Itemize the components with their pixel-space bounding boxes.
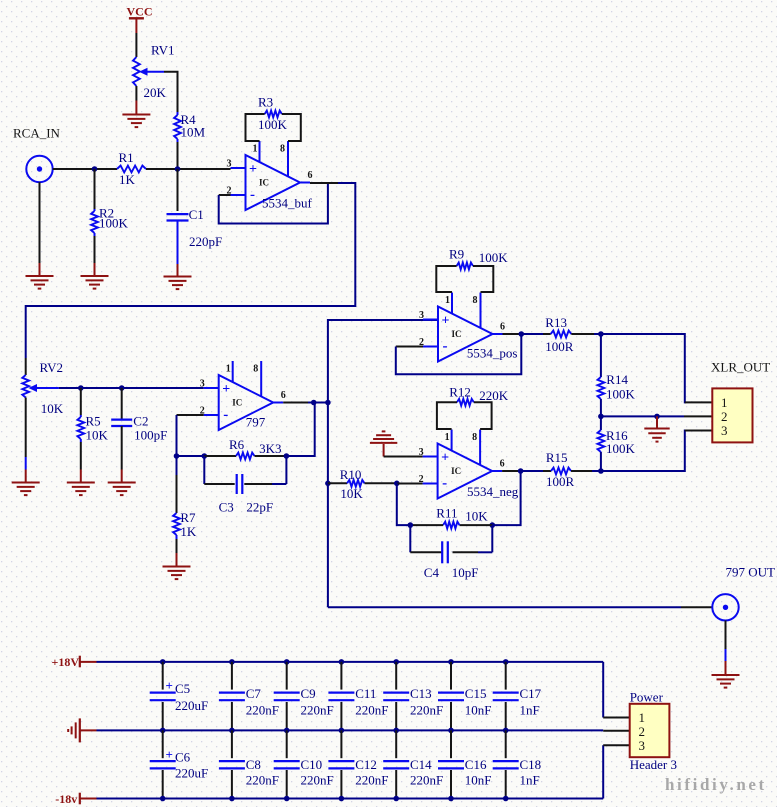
resistor R3 bbox=[265, 111, 282, 118]
node junction bbox=[284, 453, 290, 459]
op-amp U1 5534_buf bbox=[246, 155, 301, 210]
svg-text:100pF: 100pF bbox=[134, 428, 167, 443]
capacitor C3 bbox=[203, 456, 205, 484]
svg-text:1: 1 bbox=[445, 295, 450, 306]
svg-text:8: 8 bbox=[280, 144, 285, 155]
ground bbox=[39, 263, 41, 276]
svg-text:220nF: 220nF bbox=[355, 703, 388, 718]
svg-text:797 OUT: 797 OUT bbox=[726, 565, 776, 580]
node junction bbox=[175, 166, 181, 172]
svg-text:1: 1 bbox=[226, 364, 231, 375]
ground bbox=[80, 470, 82, 483]
node junction bbox=[325, 481, 331, 487]
svg-text:-: - bbox=[223, 407, 228, 423]
svg-text:1: 1 bbox=[253, 144, 258, 155]
svg-text:IC: IC bbox=[452, 329, 462, 339]
node junction bbox=[490, 522, 496, 528]
svg-text:R12: R12 bbox=[449, 385, 471, 400]
wire bbox=[164, 72, 178, 112]
wire bbox=[282, 114, 301, 141]
wire bbox=[601, 334, 686, 402]
capacitor C7 bbox=[229, 659, 235, 665]
wire bbox=[25, 398, 27, 458]
svg-text:C10: C10 bbox=[301, 757, 323, 772]
svg-text:5534_buf: 5534_buf bbox=[262, 196, 313, 211]
svg-text:C16: C16 bbox=[465, 757, 487, 772]
capacitor C9 bbox=[284, 659, 290, 665]
svg-text:5534_pos: 5534_pos bbox=[467, 346, 518, 361]
svg-text:-: - bbox=[442, 476, 447, 492]
svg-text:R14: R14 bbox=[606, 372, 628, 387]
svg-text:10M: 10M bbox=[181, 125, 206, 140]
svg-text:220nF: 220nF bbox=[246, 773, 279, 788]
ground bbox=[121, 470, 123, 483]
op-amp U3 5534_pos bbox=[438, 307, 493, 362]
capacitor C13 bbox=[393, 659, 399, 665]
capacitor C14 bbox=[395, 730, 397, 758]
wire bbox=[177, 221, 179, 265]
svg-text:RV2: RV2 bbox=[40, 360, 64, 375]
resistor R15 bbox=[543, 470, 551, 472]
svg-text:C9: C9 bbox=[301, 686, 316, 701]
svg-text:+: + bbox=[166, 678, 173, 693]
node junction bbox=[119, 385, 125, 391]
wire bbox=[176, 539, 178, 553]
node junction bbox=[598, 414, 604, 420]
svg-text:R15: R15 bbox=[546, 450, 568, 465]
svg-text:220nF: 220nF bbox=[301, 773, 334, 788]
svg-text:3: 3 bbox=[419, 310, 424, 321]
capacitor C6 bbox=[162, 730, 164, 758]
wire bbox=[594, 333, 601, 335]
resistor R14 bbox=[600, 334, 602, 377]
svg-text:6: 6 bbox=[308, 170, 313, 181]
ground bbox=[725, 661, 727, 675]
svg-text:C12: C12 bbox=[355, 757, 377, 772]
ground bbox=[656, 416, 658, 428]
resistor R12 bbox=[457, 399, 474, 406]
svg-text:1K: 1K bbox=[180, 524, 197, 539]
wire bbox=[176, 415, 178, 456]
svg-text:IC: IC bbox=[259, 178, 269, 188]
wire bbox=[26, 183, 356, 358]
svg-text:797: 797 bbox=[246, 415, 266, 430]
svg-text:R7: R7 bbox=[180, 510, 196, 525]
op-amp U2 797 bbox=[219, 375, 274, 430]
ground bbox=[383, 444, 385, 457]
svg-text:Header 3: Header 3 bbox=[630, 757, 677, 772]
resistor R10 bbox=[328, 482, 347, 484]
resistor R11 bbox=[460, 524, 493, 526]
svg-text:5534_neg: 5534_neg bbox=[467, 484, 519, 499]
ground bbox=[176, 553, 178, 567]
node junction bbox=[174, 453, 180, 459]
svg-text:10K: 10K bbox=[41, 401, 64, 416]
svg-text:6: 6 bbox=[500, 322, 505, 333]
wire bbox=[502, 470, 520, 472]
svg-text:100R: 100R bbox=[545, 339, 574, 354]
wire bbox=[219, 183, 328, 224]
svg-text:220nF: 220nF bbox=[246, 703, 279, 718]
wire bbox=[685, 401, 713, 403]
svg-text:R5: R5 bbox=[86, 414, 101, 429]
svg-text:IC: IC bbox=[451, 466, 461, 476]
potentiometer RV2 bbox=[25, 358, 27, 375]
wire bbox=[397, 483, 423, 485]
svg-text:R1: R1 bbox=[119, 150, 134, 165]
wire bbox=[204, 455, 236, 457]
svg-text:C8: C8 bbox=[246, 757, 261, 772]
resistor R6 bbox=[236, 453, 255, 460]
wire bbox=[177, 142, 179, 169]
wire bbox=[283, 402, 308, 404]
resistor R2 bbox=[94, 169, 96, 209]
svg-text:R10: R10 bbox=[340, 467, 362, 482]
svg-text:2: 2 bbox=[639, 724, 646, 739]
svg-text:220nF: 220nF bbox=[301, 703, 334, 718]
ground bbox=[135, 101, 137, 115]
svg-text:C4: C4 bbox=[424, 565, 440, 580]
wire bbox=[246, 114, 265, 141]
svg-text:1: 1 bbox=[445, 432, 450, 443]
svg-text:10nF: 10nF bbox=[465, 773, 492, 788]
node junction bbox=[654, 414, 660, 420]
capacitor C8 bbox=[231, 730, 233, 758]
svg-text:8: 8 bbox=[472, 432, 477, 443]
svg-text:C15: C15 bbox=[465, 686, 487, 701]
wire bbox=[255, 455, 287, 457]
wire bbox=[600, 399, 602, 416]
svg-text:C13: C13 bbox=[410, 686, 432, 701]
capacitor C2 bbox=[121, 388, 123, 420]
capacitor C5 bbox=[160, 659, 166, 665]
svg-text:8: 8 bbox=[253, 364, 258, 375]
svg-text:3: 3 bbox=[721, 423, 728, 438]
wire bbox=[592, 470, 601, 472]
svg-text:RV1: RV1 bbox=[151, 43, 175, 58]
wire bbox=[53, 168, 117, 170]
svg-text:+: + bbox=[166, 747, 173, 762]
wire bbox=[121, 426, 123, 470]
wire bbox=[685, 430, 713, 432]
wire bbox=[492, 471, 520, 525]
svg-text:C3: C3 bbox=[219, 500, 234, 515]
svg-text:220nF: 220nF bbox=[410, 773, 443, 788]
svg-text:C18: C18 bbox=[520, 757, 542, 772]
capacitor C16 bbox=[450, 730, 452, 758]
svg-text:R13: R13 bbox=[545, 315, 567, 330]
potentiometer RV1 bbox=[133, 57, 140, 86]
wire bbox=[59, 387, 204, 389]
wire bbox=[135, 86, 137, 101]
wire bbox=[602, 662, 604, 718]
svg-text:Power: Power bbox=[630, 690, 664, 705]
wire bbox=[146, 168, 231, 170]
node junction bbox=[518, 468, 524, 474]
wire bbox=[601, 415, 684, 417]
resistor R1 bbox=[117, 166, 146, 173]
node junction bbox=[325, 400, 331, 406]
svg-text:C7: C7 bbox=[246, 686, 262, 701]
svg-text:C17: C17 bbox=[520, 686, 542, 701]
capacitor C11 bbox=[339, 659, 345, 665]
capacitor C10 bbox=[286, 730, 288, 758]
svg-text:3: 3 bbox=[227, 159, 232, 170]
wire bbox=[725, 621, 727, 650]
wire bbox=[601, 431, 686, 472]
svg-text:1: 1 bbox=[639, 710, 646, 725]
wire bbox=[308, 402, 328, 404]
wire bbox=[39, 182, 41, 263]
svg-text:IC: IC bbox=[232, 398, 242, 408]
svg-text:1nF: 1nF bbox=[520, 703, 540, 718]
node junction bbox=[519, 331, 525, 337]
wire bbox=[286, 402, 314, 457]
wire bbox=[602, 745, 604, 798]
svg-text:+18V: +18V bbox=[52, 655, 80, 669]
svg-text:100K: 100K bbox=[606, 387, 636, 402]
wire bbox=[684, 415, 712, 417]
node junction bbox=[598, 331, 604, 337]
capacitor C12 bbox=[340, 730, 342, 758]
svg-text:XLR_OUT: XLR_OUT bbox=[711, 360, 770, 375]
svg-text:2: 2 bbox=[721, 409, 728, 424]
power ground symbol bbox=[80, 729, 97, 731]
capacitor C18 bbox=[505, 730, 507, 758]
capacitor C15 bbox=[448, 659, 454, 665]
svg-text:+: + bbox=[249, 162, 257, 177]
svg-text:10nF: 10nF bbox=[465, 703, 492, 718]
wire bbox=[436, 266, 456, 292]
svg-text:C2: C2 bbox=[133, 414, 148, 429]
svg-text:3K3: 3K3 bbox=[259, 441, 281, 456]
svg-text:R11: R11 bbox=[436, 506, 457, 521]
svg-text:R9: R9 bbox=[449, 247, 464, 262]
svg-text:1nF: 1nF bbox=[520, 773, 540, 788]
svg-text:C5: C5 bbox=[175, 681, 190, 696]
svg-text:100K: 100K bbox=[606, 441, 636, 456]
svg-text:RCA_IN: RCA_IN bbox=[13, 126, 61, 141]
svg-text:100R: 100R bbox=[546, 474, 575, 489]
svg-text:100K: 100K bbox=[99, 216, 129, 231]
svg-text:220nF: 220nF bbox=[410, 703, 443, 718]
resistor R7 bbox=[176, 456, 178, 475]
svg-text:C6: C6 bbox=[175, 750, 191, 765]
svg-text:20K: 20K bbox=[144, 85, 167, 100]
svg-text:R3: R3 bbox=[258, 95, 273, 110]
ground bbox=[94, 263, 96, 276]
svg-text:1: 1 bbox=[721, 395, 728, 410]
wire bbox=[328, 320, 438, 607]
wire bbox=[396, 346, 423, 348]
resistor R9 bbox=[457, 263, 473, 270]
svg-text:22pF: 22pF bbox=[246, 500, 273, 515]
node junction bbox=[78, 385, 84, 391]
capacitor C4 bbox=[409, 525, 411, 552]
svg-text:-: - bbox=[250, 187, 255, 203]
node junction bbox=[598, 468, 604, 474]
wire bbox=[681, 606, 712, 608]
node junction bbox=[311, 400, 317, 406]
svg-text:220pF: 220pF bbox=[189, 234, 222, 249]
capacitor C17 bbox=[503, 659, 509, 665]
svg-text:3: 3 bbox=[639, 738, 646, 753]
ground bbox=[177, 264, 179, 277]
svg-text:+: + bbox=[442, 314, 450, 329]
wire bbox=[396, 334, 522, 374]
svg-text:220uF: 220uF bbox=[175, 698, 208, 713]
node junction bbox=[92, 166, 98, 172]
svg-text:8: 8 bbox=[473, 295, 478, 306]
resistor R16 bbox=[600, 416, 602, 430]
svg-text:100K: 100K bbox=[258, 117, 288, 132]
svg-text:100K: 100K bbox=[479, 250, 509, 265]
svg-text:+: + bbox=[441, 451, 449, 466]
svg-text:3: 3 bbox=[200, 379, 205, 390]
resistor R5 bbox=[80, 388, 82, 415]
wire bbox=[397, 483, 411, 525]
svg-text:220uF: 220uF bbox=[175, 766, 208, 781]
node junction bbox=[394, 481, 400, 487]
wire -18v rail bbox=[97, 798, 604, 800]
wire bbox=[328, 606, 681, 608]
svg-text:10K: 10K bbox=[86, 428, 109, 443]
wire bbox=[521, 470, 543, 472]
wire bbox=[94, 236, 96, 263]
svg-text:VCC: VCC bbox=[127, 5, 153, 19]
svg-text:C14: C14 bbox=[410, 757, 432, 772]
svg-text:C1: C1 bbox=[189, 207, 204, 222]
svg-text:220nF: 220nF bbox=[355, 773, 388, 788]
svg-text:R6: R6 bbox=[229, 437, 245, 452]
svg-text:10K: 10K bbox=[465, 509, 488, 524]
wire bbox=[473, 266, 493, 292]
wire bbox=[600, 452, 602, 471]
svg-text:-: - bbox=[443, 339, 448, 355]
capacitor C1 bbox=[177, 169, 179, 211]
svg-text:C11: C11 bbox=[355, 686, 376, 701]
ground bbox=[25, 470, 27, 483]
wire +18V rail bbox=[97, 661, 604, 663]
wire bbox=[80, 442, 82, 470]
wire bbox=[177, 414, 204, 416]
wire ground rail bbox=[97, 729, 604, 731]
wire bbox=[521, 333, 543, 335]
resistor R13 bbox=[543, 333, 551, 335]
wire bbox=[474, 402, 492, 429]
svg-text:10pF: 10pF bbox=[452, 565, 479, 580]
resistor R4 bbox=[177, 112, 179, 115]
wire bbox=[437, 402, 457, 429]
svg-text:-18v: -18v bbox=[55, 792, 77, 806]
wire bbox=[177, 455, 205, 457]
svg-text:6: 6 bbox=[281, 390, 286, 401]
wire bbox=[310, 182, 338, 184]
svg-text:6: 6 bbox=[500, 459, 505, 470]
wire bbox=[135, 33, 137, 57]
svg-text:1K: 1K bbox=[119, 172, 136, 187]
svg-text:10K: 10K bbox=[340, 486, 363, 501]
svg-text:220K: 220K bbox=[479, 388, 509, 403]
wire bbox=[503, 333, 522, 335]
wire bbox=[219, 194, 231, 196]
svg-text:hifidiy.net: hifidiy.net bbox=[665, 775, 767, 794]
node junction bbox=[408, 522, 414, 528]
wire bbox=[384, 456, 423, 458]
node junction bbox=[202, 453, 208, 459]
wire bbox=[25, 457, 27, 470]
svg-text:+: + bbox=[222, 382, 230, 397]
op-amp U4 5534_neg bbox=[438, 444, 493, 499]
